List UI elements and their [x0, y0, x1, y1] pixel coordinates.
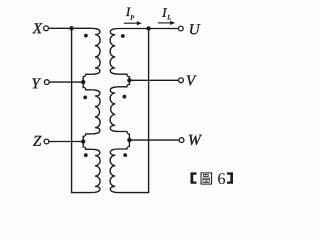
node X junction: [69, 26, 73, 30]
wire P1-P2 jog (Y tap): [83, 74, 91, 90]
wire S1 top lead: [119, 28, 149, 30]
label IL: [162, 8, 167, 16]
label Z: [33, 136, 41, 146]
arrow IL shaft: [158, 22, 171, 24]
node U junction: [146, 26, 150, 30]
polarity dot S1: [121, 34, 125, 38]
wire Z lead: [49, 141, 83, 143]
winding P3: [91, 149, 100, 192]
polarity dot S2: [123, 95, 127, 99]
caption number 6: [218, 173, 225, 184]
node Y junction: [81, 80, 85, 84]
polarity dot P2: [83, 96, 87, 100]
caption bracket left: [191, 172, 197, 183]
winding P2: [91, 90, 100, 134]
caption character Tu (figure): [201, 173, 212, 184]
wire S1-S2 jog (V tap): [119, 74, 129, 87]
label X: [32, 23, 42, 33]
arrow Ip shaft: [124, 22, 138, 24]
wire V lead: [129, 79, 178, 81]
polarity dot P1: [84, 34, 88, 38]
polarity dot P3: [84, 153, 88, 157]
winding S2: [110, 87, 119, 132]
arrow IL head: [170, 21, 175, 25]
wire P1 top lead: [72, 27, 92, 29]
terminal X: [44, 26, 49, 31]
terminal Z: [44, 139, 49, 144]
winding P1: [91, 28, 100, 74]
node Z junction: [81, 139, 85, 143]
label V: [187, 75, 197, 85]
wire S2-S3 jog (W tap): [119, 132, 129, 150]
wire left delta closing + left bus: [72, 28, 92, 192]
terminal W: [179, 138, 184, 143]
polarity dot S3: [123, 153, 127, 157]
label Y: [32, 78, 41, 88]
wire U lead: [149, 28, 179, 30]
wire right delta closing + right bus: [119, 29, 149, 193]
label Ip: [126, 8, 131, 16]
node W junction: [127, 138, 131, 142]
wire Y lead: [50, 81, 84, 83]
wire P2-P3 jog (Z tap): [83, 134, 91, 149]
label U: [190, 24, 200, 34]
node V junction: [127, 78, 131, 82]
wire W lead: [129, 139, 178, 141]
arrow Ip head: [137, 21, 142, 25]
terminal Y: [44, 80, 49, 85]
caption bracket right: [227, 172, 233, 183]
wire X lead: [49, 27, 72, 29]
terminal V: [179, 78, 184, 83]
label W: [189, 135, 202, 145]
winding S1: [110, 29, 119, 75]
winding S3: [110, 149, 119, 193]
terminal U: [178, 26, 183, 31]
